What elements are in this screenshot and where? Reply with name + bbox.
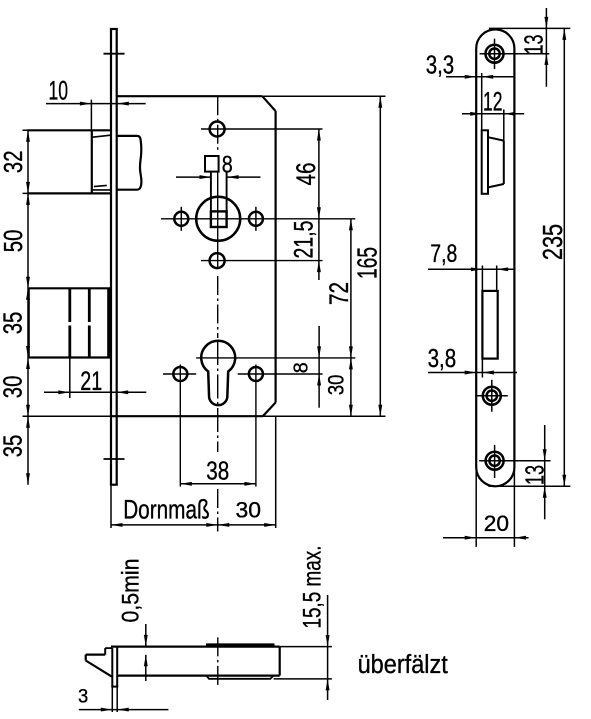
svg-text:13: 13 — [519, 35, 549, 55]
svg-text:8: 8 — [222, 151, 233, 178]
svg-text:21: 21 — [80, 366, 102, 396]
svg-text:35: 35 — [0, 312, 27, 335]
svg-text:30: 30 — [0, 376, 27, 399]
svg-text:3,3: 3,3 — [426, 50, 455, 80]
svg-text:20: 20 — [484, 511, 509, 536]
svg-text:10: 10 — [48, 76, 68, 106]
svg-text:30: 30 — [236, 498, 262, 523]
svg-text:12: 12 — [483, 87, 503, 117]
svg-text:32: 32 — [0, 151, 28, 174]
svg-text:3: 3 — [78, 687, 88, 708]
svg-text:30: 30 — [324, 375, 349, 396]
svg-text:50: 50 — [0, 230, 28, 253]
svg-text:165: 165 — [352, 247, 383, 279]
svg-text:15,5 max.: 15,5 max. — [298, 546, 326, 629]
svg-text:21,5: 21,5 — [289, 221, 319, 259]
svg-text:3,8: 3,8 — [428, 343, 457, 373]
svg-text:38: 38 — [206, 457, 229, 485]
svg-text:35: 35 — [0, 435, 27, 458]
svg-text:7,8: 7,8 — [430, 240, 457, 268]
svg-text:235: 235 — [537, 224, 568, 260]
svg-text:46: 46 — [291, 163, 321, 186]
svg-text:72: 72 — [324, 282, 354, 305]
svg-text:0,5min: 0,5min — [118, 559, 145, 623]
svg-text:13: 13 — [520, 465, 550, 485]
svg-text:Dornmaß: Dornmaß — [123, 494, 210, 524]
svg-text:überfälzt: überfälzt — [358, 651, 448, 679]
svg-text:8: 8 — [291, 362, 313, 373]
